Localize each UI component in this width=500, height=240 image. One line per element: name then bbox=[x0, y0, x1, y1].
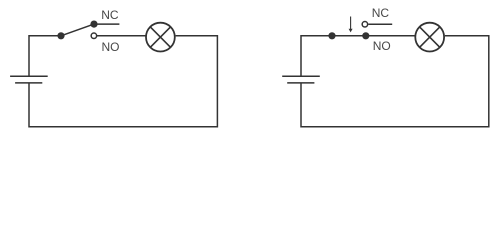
NO contact of S2 (filled dot, switch actuated/closed) bbox=[362, 32, 369, 39]
battery B2 long plate (+) bbox=[282, 75, 320, 77]
NC contact of S1 (filled dot, closed) bbox=[90, 21, 97, 28]
wire: NC stub of S2 bbox=[368, 23, 392, 25]
wire: right circuit NO contact to lamp bbox=[366, 35, 415, 37]
label NO (left switch) bbox=[102, 40, 120, 54]
switch S2 pivot junction bbox=[328, 32, 335, 39]
wire: right circuit battery+ up and across through pivot to NO contact bbox=[301, 36, 366, 76]
svg-text:NC: NC bbox=[101, 8, 119, 22]
svg-text:NC: NC bbox=[372, 6, 390, 20]
lamp L1 bbox=[146, 23, 175, 52]
switch S1 lever (closed to NC) bbox=[61, 24, 94, 36]
wire: left circuit NO contact to lamp bbox=[94, 35, 146, 37]
battery B2 short plate (-) bbox=[287, 82, 314, 84]
lamp L2 bbox=[415, 23, 444, 52]
NO contact of S1 (open circle) bbox=[91, 33, 97, 39]
svg-text:NO: NO bbox=[102, 40, 120, 54]
NC contact of S2 (open circle) bbox=[362, 22, 368, 28]
svg-text:NO: NO bbox=[373, 39, 391, 53]
wire: right circuit lamp to battery- (right side and bottom) bbox=[301, 36, 489, 127]
actuation arrow (press direction) bbox=[349, 17, 353, 33]
wire: NC stub of S1 bbox=[94, 23, 119, 25]
battery B1 long plate (+) bbox=[10, 75, 48, 77]
wire: left circuit lamp to battery- (right side and bottom) bbox=[29, 36, 217, 127]
label NO (right switch) bbox=[373, 39, 391, 53]
label NC (right switch) bbox=[372, 6, 390, 20]
switch S1 pivot junction bbox=[57, 32, 64, 39]
wire: left circuit battery+ up and across to switch pivot bbox=[29, 36, 61, 76]
battery B1 short plate (-) bbox=[15, 82, 42, 84]
label NC (left switch) bbox=[101, 8, 119, 22]
